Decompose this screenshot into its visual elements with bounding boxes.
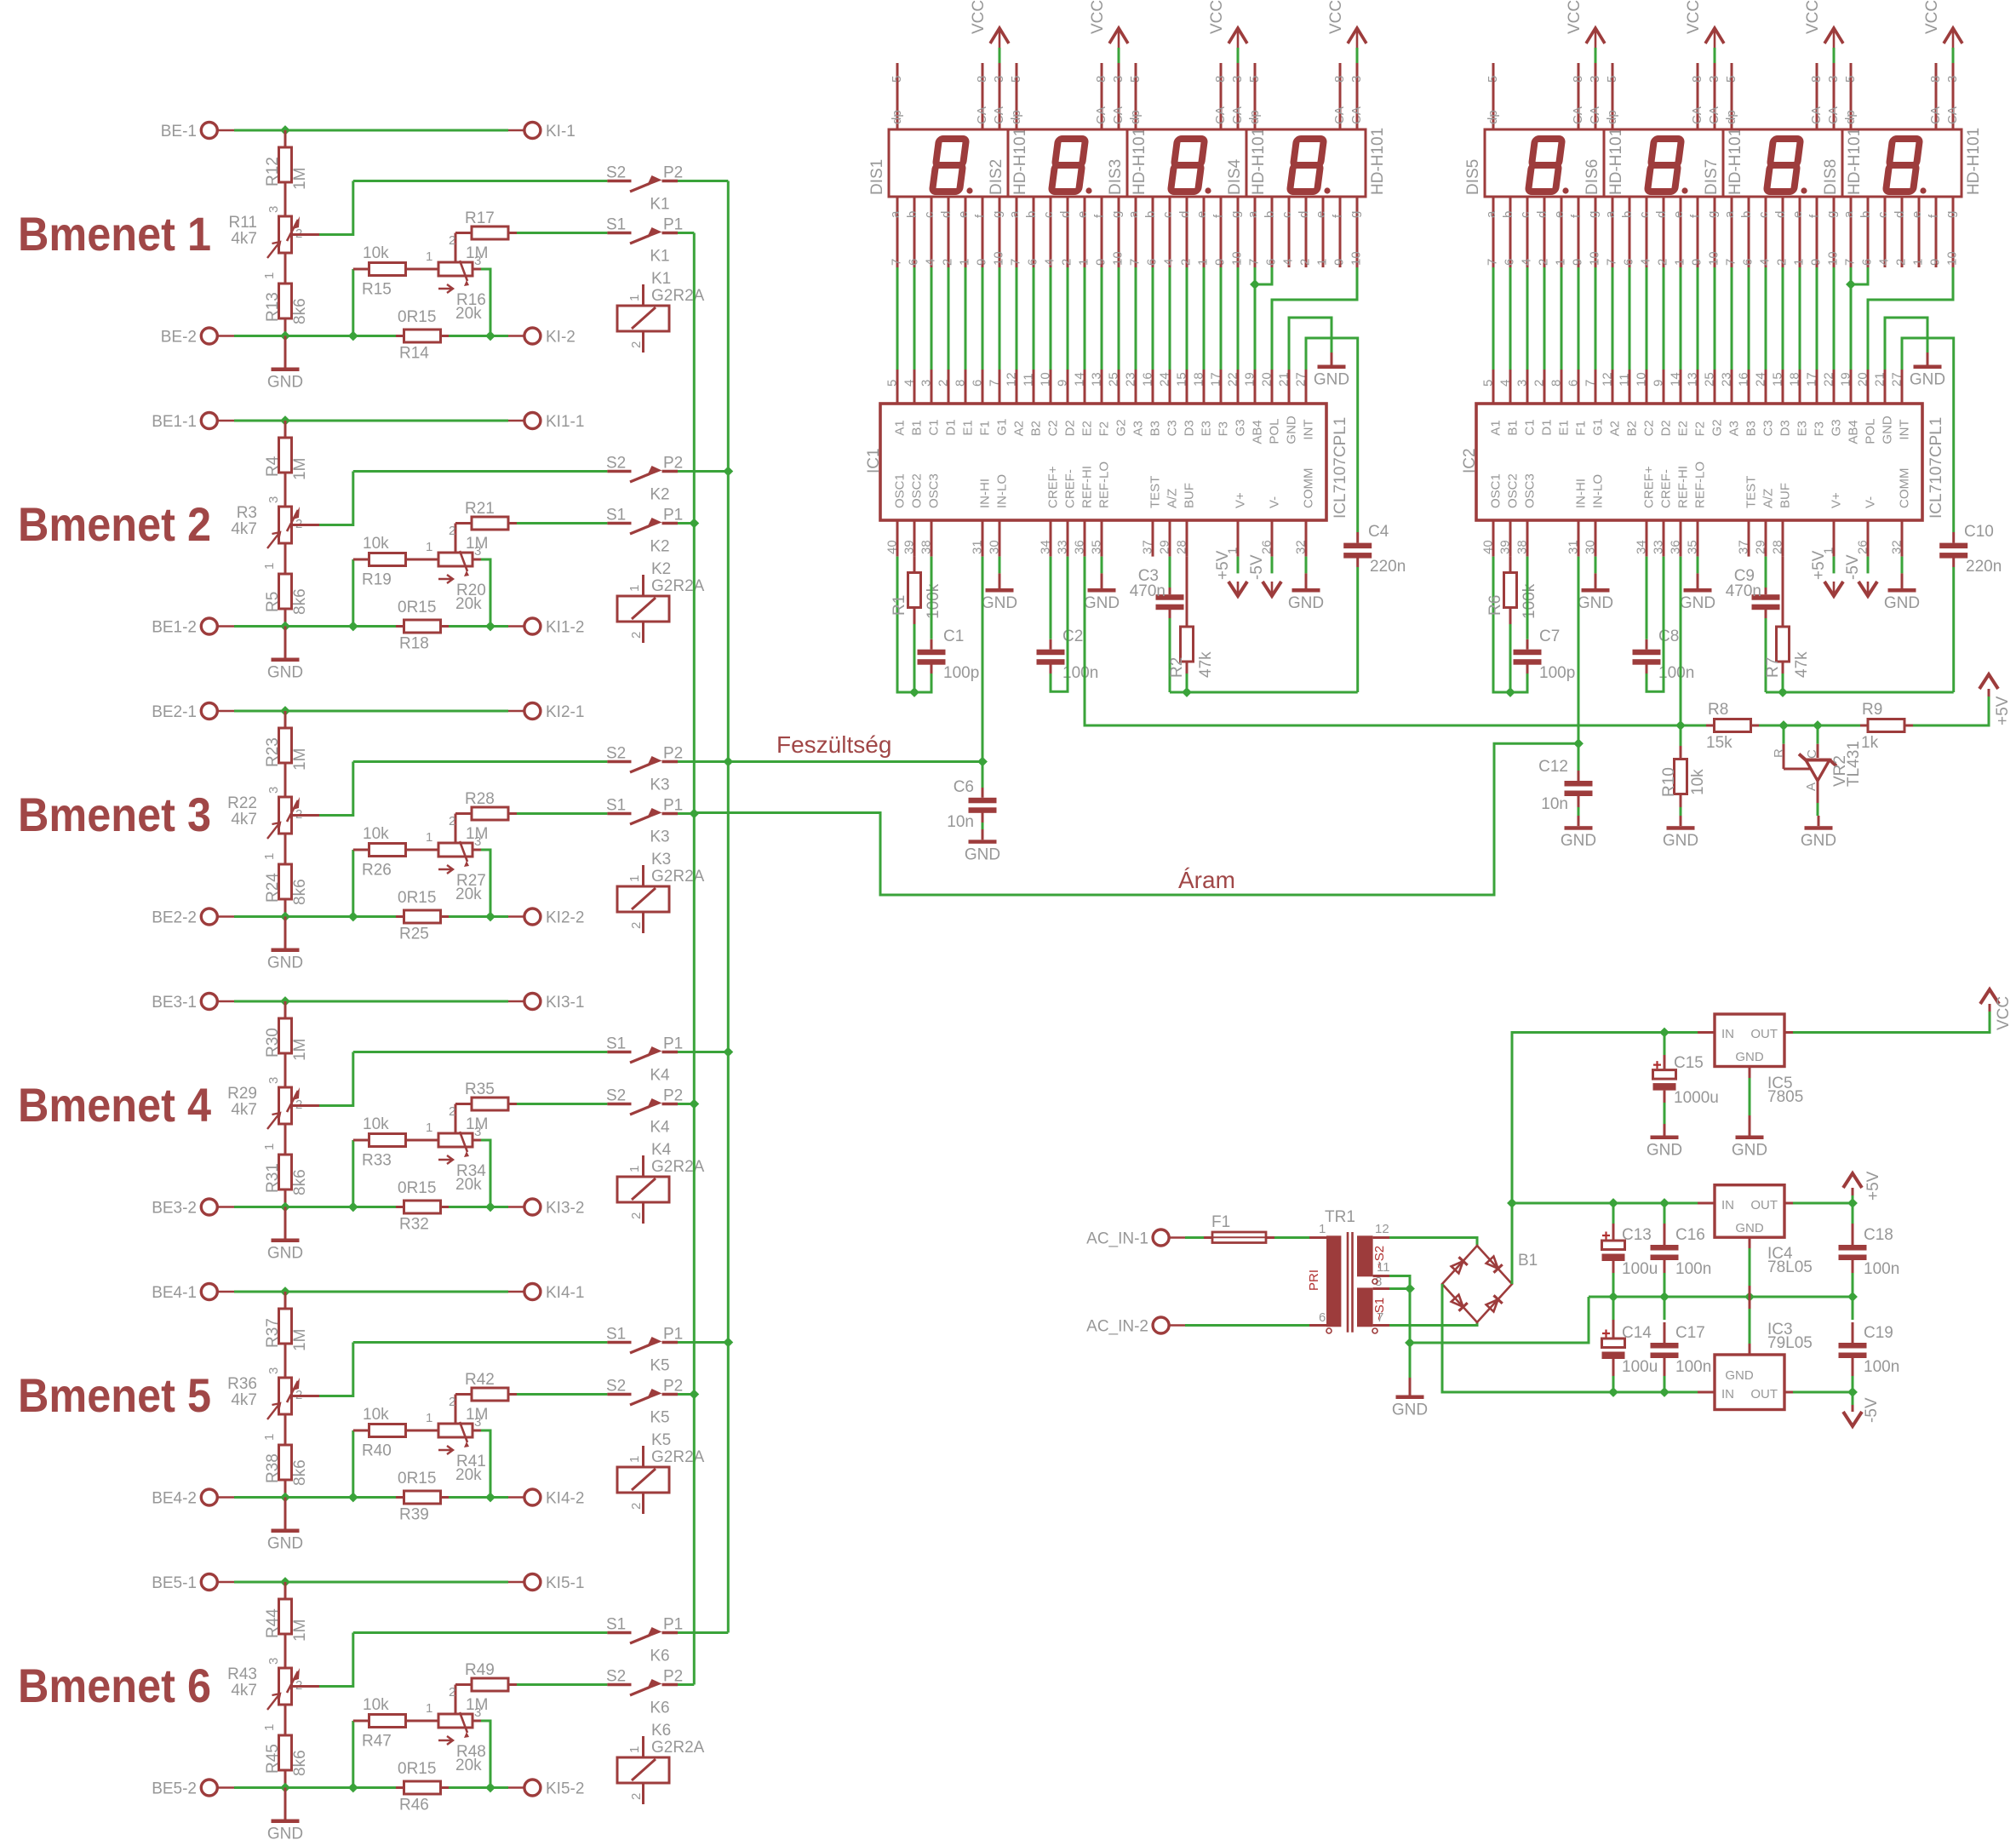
pin 13 F2 of IC1: [1090, 370, 1112, 436]
VCC supply arrow above DIS8: [1923, 0, 1962, 63]
svg-text:1M: 1M: [466, 244, 488, 262]
junction: [1609, 1293, 1618, 1301]
pin 27 INT of IC2: [1890, 370, 1912, 440]
wire segment line: [1816, 267, 1818, 370]
svg-text:1: 1: [627, 295, 642, 301]
resistor R19 10k: [353, 535, 438, 589]
pin 7 segment a of DIS2: [1007, 197, 1023, 267]
svg-text:a: a: [1246, 210, 1260, 218]
junction: [349, 622, 358, 631]
wire segment line: [982, 267, 984, 370]
capacitor C18 100n: [1839, 1203, 1900, 1297]
svg-text:10: 10: [1039, 372, 1053, 387]
wire R39 to KI4-2: [449, 1496, 508, 1499]
svg-text:20k: 20k: [455, 886, 482, 903]
svg-text:17: 17: [1805, 372, 1819, 387]
wire R18 to KI1-2: [449, 625, 508, 628]
svg-text:C6: C6: [954, 778, 974, 796]
svg-text:10: 10: [1349, 251, 1364, 266]
svg-text:F1: F1: [1574, 421, 1589, 436]
pin 4 segment c of DIS7: [1756, 197, 1773, 267]
svg-text:79L05: 79L05: [1767, 1334, 1813, 1352]
fuse F1: [1204, 1213, 1274, 1243]
pin 1 segment e of DIS5: [1552, 197, 1568, 267]
ground: [1288, 573, 1324, 612]
svg-text:K5: K5: [650, 1357, 669, 1375]
junction: [486, 1493, 495, 1502]
capacitor C17 100n: [1651, 1297, 1712, 1392]
pad BE2-2: [152, 909, 234, 927]
svg-text:AC_IN-1: AC_IN-1: [1086, 1230, 1148, 1248]
pin 10 C2 of IC2: [1635, 370, 1657, 436]
svg-text:30: 30: [1584, 540, 1598, 554]
svg-text:R43: R43: [227, 1665, 257, 1683]
svg-text:7: 7: [1009, 259, 1023, 266]
pin 21 GND of IC1: [1277, 370, 1299, 444]
svg-text:R6: R6: [1486, 595, 1504, 616]
svg-text:15k: 15k: [1706, 734, 1732, 752]
svg-text:F3: F3: [1813, 421, 1827, 437]
junction: [281, 913, 289, 921]
wire top switch row: [353, 470, 608, 473]
svg-text:38: 38: [919, 540, 934, 554]
wire cap bottom to node: [915, 674, 931, 692]
pin 5 A1 of IC2: [1481, 370, 1503, 436]
svg-text:19: 19: [1839, 372, 1853, 387]
svg-text:1: 1: [1315, 259, 1330, 266]
svg-text:g: g: [1824, 211, 1839, 218]
svg-text:23: 23: [1124, 372, 1138, 387]
junction: [1779, 721, 1788, 730]
svg-text:23: 23: [1720, 372, 1734, 387]
pin 9 D2 of IC1: [1056, 370, 1078, 436]
junction: [281, 622, 289, 631]
svg-text:10: 10: [1826, 251, 1841, 266]
resistor R38 8k6: [264, 1445, 309, 1498]
svg-text:1: 1: [1792, 259, 1807, 266]
svg-text:G2R2A: G2R2A: [651, 577, 705, 595]
junction: [1848, 1388, 1857, 1396]
svg-text:3: 3: [266, 787, 281, 794]
svg-text:11: 11: [1022, 373, 1036, 387]
wire REF-HI of IC1 down and right (reference row): [1085, 557, 1681, 725]
svg-text:GND: GND: [267, 1245, 303, 1263]
svg-text:CREF+: CREF+: [1046, 466, 1061, 508]
pad BE4-1: [152, 1284, 234, 1303]
svg-text:D1: D1: [1540, 419, 1555, 435]
svg-text:F2: F2: [1693, 421, 1708, 437]
pin 2 segment d of DIS3: [1177, 197, 1194, 267]
wire segment line: [1016, 267, 1018, 370]
wire bridge minus output to minus rail: [1442, 1284, 1698, 1392]
pin 37 TEST of IC2: [1737, 476, 1759, 557]
svg-text:11: 11: [1377, 1260, 1390, 1275]
svg-text:a: a: [1841, 210, 1856, 218]
pin 7 segment a of DIS1: [888, 197, 904, 267]
resistor R9 1k: [1818, 701, 1913, 752]
wire P2 to bus: [678, 180, 728, 182]
svg-text:1: 1: [1319, 1222, 1326, 1236]
wire BE5-2 row: [234, 1786, 396, 1789]
svg-text:9: 9: [1690, 259, 1704, 266]
wire segment a to AB4: [1254, 267, 1257, 370]
wire segment line: [1578, 267, 1580, 370]
wire segment line: [1629, 267, 1631, 370]
svg-text:2: 2: [1656, 259, 1670, 266]
svg-text:1000u: 1000u: [1674, 1089, 1719, 1107]
pad KI1-2: [508, 618, 584, 637]
VCC supply arrow above DIS1: [970, 0, 1009, 63]
svg-text:19: 19: [1243, 372, 1257, 387]
svg-text:6: 6: [1741, 259, 1755, 266]
svg-text:BE1-2: BE1-2: [152, 619, 197, 637]
svg-text:R8: R8: [1708, 701, 1728, 719]
pin 9 segment f of DIS2: [1092, 197, 1108, 267]
pin 3 CA of DIS7: [1826, 63, 1841, 129]
svg-text:220n: 220n: [1966, 558, 2002, 576]
junction: [281, 1784, 289, 1792]
svg-text:5: 5: [1128, 76, 1143, 83]
trimmer potentiometer R41 20k: [426, 1395, 486, 1485]
pin 3 C1 of IC2: [1515, 370, 1538, 436]
pin 10 segment g of DIS6: [1705, 197, 1721, 267]
svg-text:2: 2: [1298, 259, 1313, 266]
svg-text:C17: C17: [1675, 1324, 1705, 1342]
pin 7 segment a of DIS7: [1722, 197, 1738, 267]
pin 6 segment b of DIS4: [1263, 197, 1279, 267]
VCC supply arrow above DIS7: [1804, 0, 1843, 63]
svg-text:A2: A2: [1012, 421, 1027, 436]
svg-text:20: 20: [1856, 372, 1870, 387]
pin 25 G2 of IC2: [1703, 370, 1725, 436]
svg-text:C1: C1: [1523, 419, 1538, 435]
shunt reference VR2 TL431: [1772, 725, 1863, 816]
svg-text:G2: G2: [1710, 419, 1725, 436]
pin 4 segment c of DIS6: [1637, 197, 1653, 267]
svg-text:2: 2: [629, 922, 644, 929]
svg-text:8: 8: [1332, 76, 1347, 83]
svg-text:CA: CA: [1809, 106, 1824, 124]
pad KI-2: [508, 328, 576, 347]
wire R49 to switch: [517, 1683, 607, 1686]
svg-text:26: 26: [1856, 540, 1870, 554]
VCC supply arrow above DIS6: [1685, 0, 1724, 63]
svg-text:Bmenet 6: Bmenet 6: [18, 1659, 211, 1712]
wire R3 wiper to switch row: [293, 524, 319, 526]
pad KI2-2: [508, 909, 584, 927]
svg-text:C15: C15: [1674, 1054, 1704, 1072]
wire top switch row: [353, 1631, 608, 1634]
svg-text:GND: GND: [1663, 832, 1698, 850]
svg-text:9: 9: [1094, 259, 1108, 266]
svg-text:HD-H101: HD-H101: [1369, 128, 1387, 195]
capacitor C9 470n: [1726, 557, 1780, 618]
svg-text:470n: 470n: [1130, 582, 1165, 600]
svg-text:9: 9: [1056, 380, 1070, 387]
svg-text:8: 8: [1213, 76, 1228, 83]
svg-text:7: 7: [1486, 259, 1500, 266]
capacitor C14 100u: [1602, 1297, 1658, 1392]
wire BE2-1 to KI2-1: [234, 710, 508, 713]
wire OSC1 down: [1493, 557, 1511, 692]
wire C4 to buffer row: [1356, 567, 1359, 692]
pin 1 segment e of DIS8: [1910, 197, 1926, 267]
svg-text:1: 1: [627, 1166, 642, 1172]
svg-text:8: 8: [954, 380, 968, 387]
pin 16 B3 of IC2: [1737, 370, 1759, 436]
svg-text:12: 12: [1005, 372, 1019, 387]
svg-text:-5V: -5V: [1844, 554, 1862, 580]
capacitor C10 220n: [1939, 523, 2002, 576]
pin 1 V+ of IC2: [1822, 492, 1844, 557]
svg-text:R40: R40: [362, 1442, 392, 1460]
svg-text:R33: R33: [362, 1152, 392, 1170]
pin 2 segment d of DIS6: [1654, 197, 1670, 267]
pin 11 B2 of IC1: [1022, 370, 1044, 436]
ground: [1084, 573, 1120, 612]
wire R16 pin3 riser: [472, 268, 481, 271]
supply -5V arrow at V-: [1844, 554, 1877, 596]
junction: [1506, 688, 1515, 696]
pin 9 segment f of DIS6: [1688, 197, 1704, 267]
svg-text:INT: INT: [1898, 419, 1912, 439]
svg-text:GND: GND: [1680, 594, 1715, 612]
svg-text:BE5-2: BE5-2: [152, 1780, 197, 1798]
svg-text:3: 3: [1588, 76, 1602, 83]
relay coil K6 G2R2A: [617, 1722, 705, 1804]
wire raw plus rail: [1512, 1202, 1698, 1205]
svg-text:5: 5: [1843, 76, 1858, 83]
svg-text:S2: S2: [606, 1668, 626, 1686]
svg-text:BUF: BUF: [1183, 483, 1197, 508]
junction: [281, 1493, 289, 1502]
pin 18 E3 of IC1: [1192, 370, 1214, 436]
svg-text:6: 6: [1622, 259, 1636, 266]
svg-text:18: 18: [1788, 372, 1802, 387]
svg-text:CA: CA: [1690, 106, 1704, 124]
pin 31 IN-HI of IC2: [1566, 479, 1589, 557]
svg-text:d: d: [1177, 211, 1192, 218]
svg-text:TEST: TEST: [1148, 476, 1163, 508]
svg-text:2: 2: [1894, 259, 1909, 266]
svg-text:HD-H101: HD-H101: [1727, 128, 1744, 195]
wire segment line: [1033, 267, 1035, 370]
svg-text:R17: R17: [465, 209, 495, 227]
junction: [281, 416, 289, 425]
pin 13 F2 of IC2: [1686, 370, 1708, 436]
svg-text:R2: R2: [1168, 657, 1186, 678]
svg-text:GND: GND: [1285, 416, 1299, 444]
wire R bottom to buffer row: [1782, 674, 1784, 692]
svg-text:IN: IN: [1721, 1387, 1734, 1401]
svg-text:A/Z: A/Z: [1761, 489, 1776, 508]
resistor R21 1M: [455, 500, 517, 553]
pad AC_IN-1: [1086, 1230, 1185, 1248]
svg-text:4k7: 4k7: [231, 1391, 257, 1409]
svg-text:g: g: [990, 211, 1005, 218]
svg-text:VCC: VCC: [1804, 0, 1822, 34]
svg-text:0R15: 0R15: [398, 599, 436, 616]
pin 19 AB4 of IC2: [1839, 370, 1861, 444]
wire GND row: [1589, 1296, 1853, 1298]
svg-text:1M: 1M: [466, 1696, 488, 1714]
svg-text:100k: 100k: [925, 583, 942, 619]
svg-text:ICL7107CPL1: ICL7107CPL1: [1332, 417, 1349, 519]
svg-text:B3: B3: [1148, 421, 1163, 436]
svg-text:1M: 1M: [466, 535, 488, 553]
pin 7 segment a of DIS3: [1126, 197, 1143, 267]
relay contact K1 S1-P1: [606, 216, 683, 266]
wire segment line: [1050, 267, 1052, 370]
svg-text:VCC: VCC: [970, 0, 988, 34]
pin 1 segment e of DIS3: [1194, 197, 1211, 267]
svg-text:0R15: 0R15: [398, 1179, 436, 1197]
svg-text:7: 7: [1724, 259, 1738, 266]
wire segment line: [1203, 267, 1206, 370]
svg-text:GND: GND: [1735, 1050, 1764, 1064]
svg-text:10k: 10k: [363, 825, 389, 843]
svg-text:REF-LO: REF-LO: [1693, 461, 1708, 508]
svg-text:8: 8: [1549, 380, 1564, 387]
pin 22 G3 of IC2: [1822, 370, 1844, 436]
pin 2 segment d of DIS7: [1773, 197, 1790, 267]
svg-text:VCC: VCC: [1685, 0, 1703, 34]
svg-text:R49: R49: [465, 1661, 495, 1679]
svg-text:15: 15: [1771, 372, 1785, 387]
wire riser to R15: [352, 269, 354, 336]
svg-text:dp: dp: [890, 110, 904, 124]
svg-text:OSC1: OSC1: [893, 473, 908, 508]
wire R48 pin3 riser: [472, 1720, 481, 1722]
pin 28 BUF of IC1: [1175, 483, 1197, 557]
trimmer potentiometer R3 4k7: [231, 496, 302, 573]
pin 22 G3 of IC1: [1226, 370, 1248, 436]
junction: [978, 758, 987, 766]
junction: [1406, 1285, 1414, 1293]
pin 8 CA of DIS4: [1332, 63, 1347, 129]
svg-text:4: 4: [1877, 259, 1892, 266]
svg-text:R35: R35: [465, 1080, 495, 1098]
wire segment line: [1135, 267, 1137, 370]
svg-text:IN: IN: [1721, 1198, 1734, 1212]
resistor R25 0R15: [396, 889, 449, 943]
svg-text:V+: V+: [1234, 492, 1248, 508]
resistor R13 8k6: [264, 284, 309, 336]
svg-text:G2R2A: G2R2A: [651, 1158, 705, 1176]
pin 1 segment e of DIS4: [1314, 197, 1330, 267]
pin 32 COMM of IC1: [1294, 468, 1316, 557]
pin 8 CA of DIS6: [1690, 63, 1704, 129]
svg-text:b: b: [1143, 211, 1158, 218]
svg-text:GND: GND: [1725, 1368, 1754, 1383]
pin 8 CA of DIS1: [975, 63, 989, 129]
svg-text:1M: 1M: [291, 748, 309, 771]
svg-text:G3: G3: [1830, 419, 1844, 436]
svg-text:8: 8: [1094, 76, 1108, 83]
svg-text:4: 4: [1758, 259, 1773, 266]
svg-text:32: 32: [1294, 540, 1309, 554]
relay contact K2 S2-P2: [606, 455, 683, 504]
svg-text:28: 28: [1175, 540, 1189, 554]
relay contact K4 S1-P1: [606, 1035, 683, 1085]
svg-text:G2R2A: G2R2A: [651, 1739, 705, 1757]
capacitor C19 100n: [1839, 1297, 1900, 1392]
wire segment line: [1152, 267, 1154, 370]
relay contact K5 S2-P2: [606, 1378, 683, 1427]
svg-text:R1: R1: [891, 595, 908, 616]
svg-text:GND: GND: [1392, 1401, 1428, 1419]
svg-text:9: 9: [1332, 259, 1347, 266]
svg-text:CA: CA: [975, 106, 989, 124]
svg-text:K1: K1: [650, 248, 669, 266]
svg-text:b: b: [1620, 211, 1635, 218]
svg-text:Bmenet 4: Bmenet 4: [18, 1078, 211, 1132]
svg-text:CA: CA: [1094, 106, 1108, 124]
svg-text:AB4: AB4: [1251, 420, 1265, 444]
svg-text:CREF-: CREF-: [1063, 469, 1078, 508]
svg-text:R10: R10: [1660, 767, 1678, 797]
pin 4 segment c of DIS2: [1041, 197, 1057, 267]
svg-text:5: 5: [890, 76, 904, 83]
svg-text:22: 22: [1822, 372, 1836, 387]
junction: [724, 1338, 733, 1347]
svg-text:2: 2: [449, 1395, 455, 1409]
capacitor C1 100p: [918, 557, 980, 682]
svg-text:KI2-1: KI2-1: [546, 703, 584, 721]
svg-text:4: 4: [902, 380, 917, 387]
svg-text:GND: GND: [1801, 832, 1836, 850]
svg-text:34: 34: [1635, 540, 1649, 554]
svg-text:C12: C12: [1538, 758, 1568, 776]
wire REF-LO to ground: [1101, 557, 1103, 574]
wire R27 pin3 riser: [472, 849, 481, 851]
trimmer potentiometer R36 4k7: [227, 1367, 302, 1444]
svg-text:1: 1: [627, 1746, 642, 1753]
wire R bottom to node: [913, 624, 916, 692]
pin 40 OSC1 of IC2: [1481, 473, 1503, 556]
pin 6 F1 of IC2: [1566, 370, 1589, 436]
svg-text:2: 2: [629, 341, 644, 348]
wire R bottom to node: [1509, 624, 1512, 692]
wire R21 to switch: [517, 522, 607, 524]
svg-text:c: c: [1637, 211, 1652, 218]
resistor R14 0R15: [396, 308, 449, 363]
wire R bottom to buffer row: [1186, 674, 1188, 692]
wire top switch row: [353, 1341, 608, 1344]
wire BE3-2 row: [234, 1206, 396, 1208]
wire segment line: [1697, 267, 1699, 370]
svg-text:b: b: [1501, 211, 1515, 218]
svg-text:F1: F1: [978, 421, 993, 436]
trimmer potentiometer R20 20k: [426, 524, 486, 614]
svg-text:R13: R13: [264, 292, 282, 322]
svg-text:4: 4: [924, 259, 938, 266]
pad BE5-2: [152, 1780, 234, 1798]
wire bus Feszultseg vertical (outer): [727, 181, 730, 1633]
svg-text:C18: C18: [1864, 1226, 1893, 1244]
junction: [690, 1100, 699, 1109]
svg-text:Bmenet 5: Bmenet 5: [18, 1368, 211, 1422]
svg-text:K1: K1: [650, 196, 669, 214]
svg-text:C2: C2: [1046, 420, 1061, 436]
svg-text:K2: K2: [650, 538, 669, 556]
svg-text:B1: B1: [1506, 420, 1521, 435]
wire P2 to bus: [678, 760, 728, 763]
svg-text:g: g: [1944, 211, 1958, 218]
svg-text:S2: S2: [606, 1378, 626, 1396]
ground: [982, 573, 1017, 612]
svg-text:TEST: TEST: [1744, 476, 1759, 508]
